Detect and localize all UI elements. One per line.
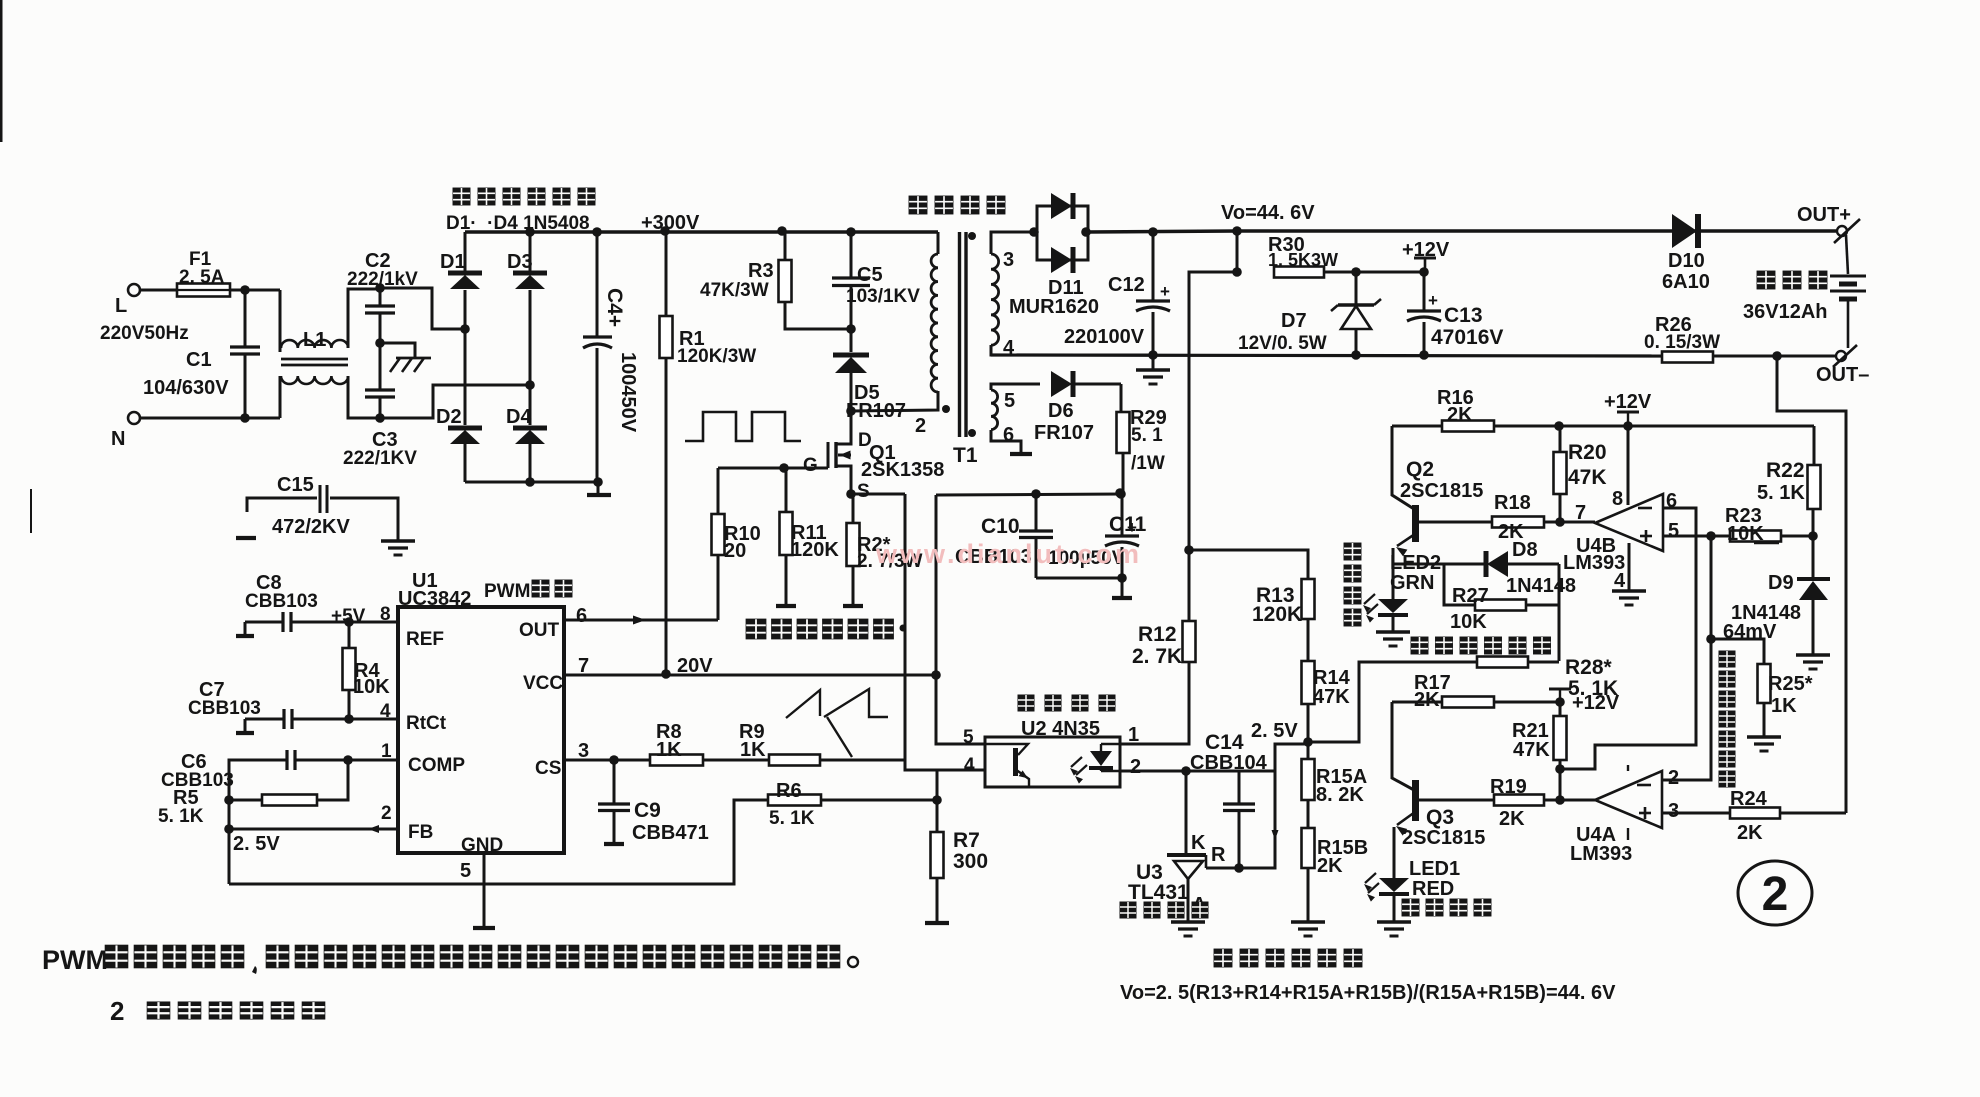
- svg-text:RED: RED: [1412, 878, 1454, 900]
- svg-text:2: 2: [1130, 756, 1141, 778]
- svg-text:2SK1358: 2SK1358: [861, 459, 944, 481]
- svg-text:RtCt: RtCt: [406, 713, 447, 734]
- svg-text:1N4148: 1N4148: [1506, 575, 1576, 597]
- label: charging indicator 充电指示: [1402, 899, 1420, 917]
- phasing dot top: [968, 232, 976, 240]
- label: output voltage adjust 输出电压调节: [1214, 949, 1233, 968]
- svg-text:OUT: OUT: [519, 620, 560, 641]
- svg-text:COMP: COMP: [408, 755, 465, 776]
- node: C12 bottom on 0V rail: [1148, 350, 1158, 360]
- phototransistor inside U2: [1013, 748, 1018, 776]
- wire: left page-edge scan mark: [30, 489, 32, 533]
- phasing dot primary bottom: [942, 405, 950, 413]
- svg-text:1K: 1K: [740, 739, 766, 761]
- svg-text:8. 2K: 8. 2K: [1316, 784, 1364, 806]
- diode D11 MUR1620 dual: [1029, 227, 1039, 237]
- svg-text:2SC1815: 2SC1815: [1402, 827, 1485, 849]
- node: R29 bottom on vcc rail: [1116, 489, 1126, 499]
- svg-text:47K/3W: 47K/3W: [700, 280, 769, 301]
- resistor R16 2K: [1442, 421, 1494, 432]
- resistor R17 2K: [1392, 701, 1442, 704]
- svg-text:2: 2: [1762, 868, 1789, 921]
- svg-text:C12: C12: [1108, 274, 1145, 296]
- ground bar for pin 6: [1010, 452, 1032, 456]
- earth ground below C12: [1152, 355, 1155, 369]
- op-amp U2 4N35 optocoupler box: [985, 737, 1120, 787]
- resistor R1 120K/3W: [660, 226, 670, 236]
- svg-text:6: 6: [576, 605, 587, 627]
- wire R8-R9: [703, 759, 769, 762]
- node: C14 bottom: [1234, 863, 1244, 873]
- svg-text:R22: R22: [1766, 459, 1805, 482]
- phasing dot bottom: [968, 429, 976, 437]
- node: REF +5V: [344, 617, 354, 627]
- earth ground below R15B: [1291, 920, 1325, 923]
- wire D8 to R28 column: [1558, 564, 1561, 661]
- svg-text:2K: 2K: [1414, 689, 1440, 711]
- wire rail to opto pin5: [936, 495, 985, 744]
- svg-text:LM393: LM393: [1570, 843, 1632, 865]
- pin 5 GND stub: [483, 853, 486, 926]
- svg-text:10K: 10K: [1727, 523, 1764, 545]
- resistor R28* 5.1K: [1477, 657, 1528, 668]
- svg-text:222/1KV: 222/1KV: [343, 448, 417, 469]
- pin 1 wire of U2: [1120, 662, 1189, 744]
- wire CS sense vertical: [905, 494, 985, 770]
- svg-text:1K: 1K: [656, 739, 682, 761]
- svg-text:472/2KV: 472/2KV: [272, 516, 350, 538]
- diode D7 zener 12V/0.5W: [1355, 272, 1358, 304]
- svg-text:100450V: 100450V: [617, 352, 639, 433]
- capacitor C9 CBB471: [613, 760, 616, 804]
- terminal L: [128, 284, 140, 296]
- svg-text:5. 1K: 5. 1K: [1757, 482, 1805, 504]
- node: C13 bottom: [1419, 350, 1429, 360]
- svg-text:D9: D9: [1768, 572, 1794, 594]
- resistor R14 47K: [1302, 661, 1315, 704]
- svg-text:PWM: PWM: [42, 945, 108, 975]
- svg-text:R28*: R28*: [1565, 656, 1613, 679]
- svg-text:47K: 47K: [1513, 739, 1550, 761]
- resistor R3 47K/3W: [777, 226, 787, 236]
- diode D10 6A10: [1672, 214, 1697, 248]
- terminal N: [128, 412, 140, 424]
- resistor R6 5.1K: [768, 795, 821, 806]
- wire +12V rail of comparators: [1392, 425, 1814, 428]
- wire R23 to R22/D9: [1781, 535, 1813, 538]
- svg-text:1: 1: [381, 741, 392, 762]
- node: +12V Q3 section: [1555, 697, 1565, 707]
- wire pin6 feedback to output node: [1560, 508, 1696, 769]
- capacitor C14 CBB104: [1238, 771, 1241, 804]
- svg-text:LED2: LED2: [1390, 552, 1441, 574]
- earth ground below D9: [1796, 653, 1830, 656]
- svg-text:D1: D1: [440, 251, 466, 273]
- node: R20 top: [1554, 421, 1564, 431]
- node: Vo rail tap: [1232, 226, 1242, 236]
- node: D7 top: [1351, 267, 1361, 277]
- svg-text:3: 3: [1668, 800, 1679, 822]
- wire R24 to sense column: [1780, 812, 1846, 815]
- node: R20 bottom / pin7: [1555, 517, 1565, 527]
- svg-text:220V50Hz: 220V50Hz: [100, 323, 189, 344]
- svg-text:10K: 10K: [1450, 611, 1487, 633]
- wire OUT pin6 line: [564, 619, 718, 622]
- node: R19 right / U4A out: [1555, 795, 1565, 805]
- wire pin5 to R23: [1663, 535, 1730, 538]
- svg-text:Vo=2. 5(R13+R14+R15A+R15B)/(R1: Vo=2. 5(R13+R14+R15A+R15B)/(R15A+R15B)=4…: [1120, 982, 1616, 1004]
- pin 2 wire of U2: [1120, 770, 1275, 773]
- +300V rail: [465, 230, 938, 234]
- svg-text:D4: D4: [506, 406, 532, 428]
- svg-text:8: 8: [1612, 488, 1623, 510]
- wire sense line down to R24 column: [1777, 356, 1846, 813]
- svg-text:R27: R27: [1452, 585, 1489, 607]
- light arrows inside U2: [1071, 757, 1082, 767]
- node: COMP: [343, 755, 353, 765]
- svg-text:C9: C9: [634, 799, 661, 822]
- capacitor C13 47016V: [1423, 272, 1426, 311]
- svg-text:VCC: VCC: [523, 673, 563, 694]
- node: R22 bottom: [1808, 531, 1818, 541]
- pin 4 gnd lead U4B: [1628, 543, 1631, 590]
- wire 2.5V to R28 riser: [1308, 662, 1477, 742]
- pin 8 REF wire: [349, 621, 398, 624]
- resistor R30 1.5K3W: [1274, 267, 1324, 278]
- svg-text:47K: 47K: [1313, 686, 1350, 708]
- node: R30 left: [1232, 267, 1242, 277]
- ground bar for R2: [843, 604, 863, 608]
- svg-text:10K: 10K: [353, 676, 390, 698]
- svg-text:6: 6: [1003, 424, 1014, 446]
- node: K line junction: [1181, 766, 1191, 776]
- svg-text:D6: D6: [1048, 400, 1074, 422]
- svg-text:4: 4: [1614, 570, 1626, 592]
- wire bridge bottom rail: [465, 481, 598, 484]
- svg-text:T1: T1: [953, 444, 978, 467]
- svg-text:2. 7K: 2. 7K: [1132, 645, 1182, 668]
- pin 1 COMP wire: [348, 759, 398, 762]
- diode D5 FR107: [850, 329, 853, 352]
- node: 2.5V sense: [1303, 737, 1313, 747]
- transformer T1 primary winding: [937, 232, 940, 254]
- vertical label: state switch point adjust 状态转换点调节: [1719, 651, 1736, 668]
- sawtooth icon: [786, 690, 820, 718]
- resistor R15B 2K: [1302, 828, 1315, 868]
- svg-text:+: +: [1428, 291, 1438, 310]
- svg-text:5: 5: [1004, 390, 1015, 412]
- svg-text:2: 2: [1668, 767, 1679, 789]
- resistor R26 0.15/3W: [1662, 352, 1713, 363]
- svg-text:FB: FB: [408, 822, 433, 843]
- resistor R27 10K: [1444, 564, 1475, 605]
- wire R26 to OUT-: [1713, 355, 1836, 358]
- svg-text:120K: 120K: [791, 539, 839, 561]
- transformer T1 core: [958, 232, 961, 437]
- svg-text:C14: C14: [1205, 731, 1244, 754]
- svg-text:CBB103: CBB103: [188, 698, 261, 719]
- svg-text:N: N: [111, 428, 125, 450]
- svg-text:+: +: [1160, 282, 1170, 301]
- wire FB to R6 return: [229, 800, 768, 884]
- wire TL431 R to 2.5V riser: [1206, 744, 1308, 868]
- svg-text:C5: C5: [857, 264, 883, 286]
- capacitor C3 222/1KV: [379, 343, 382, 390]
- svg-text:+12V: +12V: [1604, 391, 1652, 413]
- wire R6 to R7 node: [821, 799, 937, 802]
- resistor R10 20: [717, 468, 720, 514]
- svg-text:C15: C15: [277, 474, 314, 496]
- svg-text:S: S: [857, 481, 870, 502]
- wire divider top to R13: [1189, 550, 1308, 579]
- node: 20V at R1 bottom: [661, 669, 671, 679]
- svg-text:MUR1620: MUR1620: [1009, 296, 1099, 318]
- svg-text:GRN: GRN: [1390, 572, 1434, 594]
- node: CS/C9: [609, 755, 619, 765]
- svg-text:120K/3W: 120K/3W: [677, 346, 756, 367]
- wire node up to pin4 line: [936, 770, 939, 800]
- figure number circle 2: [1738, 861, 1812, 925]
- resistor R13 120K: [1302, 579, 1315, 619]
- node: C2/C3 midpoint (chassis): [375, 338, 385, 348]
- node: bridge N' input: [525, 380, 535, 390]
- svg-text:7: 7: [578, 655, 589, 677]
- svg-text:C10: C10: [981, 515, 1020, 538]
- capacitor C4 100u450V: [592, 227, 602, 237]
- wire secondary output to C12: [1088, 231, 1237, 232]
- diode D8 1N4148 line: [1393, 563, 1484, 566]
- svg-text:LED1: LED1: [1409, 858, 1460, 880]
- svg-text:4: 4: [380, 701, 391, 722]
- svg-text:5. 1: 5. 1: [1131, 425, 1163, 446]
- resistor R8 1K: [650, 755, 703, 766]
- node: gate junction: [779, 463, 789, 473]
- svg-text:5: 5: [1668, 520, 1679, 542]
- vertical label: full-charge indicator 充满指示: [1344, 543, 1362, 561]
- wire gate line: [718, 467, 828, 470]
- wire Q1 source to CS drop: [851, 493, 905, 496]
- wire C2 node to bridge L': [380, 288, 464, 329]
- wire Vo feed jog: [1189, 231, 1237, 550]
- svg-text:CBB104: CBB104: [1190, 752, 1268, 774]
- resistor R19 2K: [1494, 795, 1544, 806]
- svg-text:R12: R12: [1138, 623, 1177, 646]
- ground bar below C10/C11: [1121, 578, 1124, 596]
- svg-text:3: 3: [1003, 249, 1014, 271]
- resistor R29 5.1/1W: [1117, 412, 1130, 453]
- svg-text:REF: REF: [406, 629, 444, 650]
- svg-text:2. 5A: 2. 5A: [179, 267, 225, 288]
- svg-text:+300V: +300V: [641, 212, 700, 234]
- svg-text:PWM: PWM: [484, 581, 530, 602]
- node: R6/R7/opto4: [932, 795, 942, 805]
- pin 4 RtCt wire: [349, 718, 398, 721]
- svg-text:220100V: 220100V: [1064, 326, 1145, 348]
- label: flyback output 反激输出: [909, 196, 928, 215]
- node: pin5/R23 junction: [1706, 531, 1716, 541]
- svg-text:2K: 2K: [1447, 404, 1473, 426]
- wire pin5 node down to U4A pin2: [1662, 536, 1711, 780]
- wire secondary 0V rail: [991, 355, 1662, 356]
- capacitor C11 100u50V: [1115, 488, 1125, 498]
- svg-text:1: 1: [1128, 724, 1139, 746]
- pin 3 CS wire: [564, 759, 650, 762]
- ground bar for C9: [604, 842, 624, 846]
- op-amp U4A LM393: [1560, 799, 1595, 802]
- chassis ground symbol: [380, 343, 415, 358]
- ground bar for U1 GND: [473, 926, 495, 930]
- svg-text:103/1KV: 103/1KV: [846, 286, 920, 307]
- ground for C15 left: [236, 536, 256, 540]
- wire L to fuse: [140, 289, 177, 292]
- svg-text:2K: 2K: [1498, 521, 1524, 543]
- svg-text:2. 5V: 2. 5V: [233, 833, 280, 855]
- ground bar for R7: [925, 921, 949, 925]
- svg-text:5. 1K: 5. 1K: [769, 808, 815, 829]
- svg-text:+: +: [1127, 518, 1137, 537]
- node: snubber bottom: [846, 324, 856, 334]
- diode D9 1N4148 64mV: [1812, 536, 1815, 578]
- wire: top-left page edge mark: [0, 0, 3, 142]
- resistor R4 10K: [348, 622, 351, 648]
- svg-text:5: 5: [460, 860, 471, 882]
- svg-text:R7: R7: [953, 829, 980, 852]
- svg-text:D7: D7: [1281, 310, 1307, 332]
- node: C1 top junction: [240, 285, 250, 295]
- node: bridge L' input: [460, 324, 470, 334]
- svg-text:/1W: /1W: [1131, 453, 1165, 474]
- svg-text:FR107: FR107: [1034, 422, 1094, 444]
- svg-text:R: R: [1211, 844, 1226, 866]
- svg-text:2K: 2K: [1317, 855, 1343, 877]
- capacitor C5 103/1KV: [846, 227, 856, 237]
- svg-text:20: 20: [724, 540, 746, 562]
- svg-text:47K: 47K: [1568, 466, 1607, 489]
- transistor U3 TL431: [1185, 771, 1188, 853]
- svg-text:G: G: [803, 455, 818, 476]
- resistor R7 300: [936, 800, 939, 832]
- wire C3 node to bridge N': [380, 385, 530, 418]
- node: battery minus sense: [1772, 351, 1782, 361]
- svg-text:2: 2: [915, 415, 926, 437]
- svg-text:R19: R19: [1490, 776, 1527, 798]
- svg-text:104/630V: 104/630V: [143, 377, 229, 399]
- node: C1 bottom junction: [240, 413, 250, 423]
- svg-text:L: L: [115, 295, 127, 317]
- earth ground for C15 right: [381, 539, 415, 542]
- resistor R20 47K: [1559, 426, 1562, 452]
- primary ground bar: [597, 482, 600, 494]
- svg-text:C13: C13: [1444, 304, 1483, 327]
- svg-text:UC3842: UC3842: [398, 588, 471, 610]
- svg-text:2SC1815: 2SC1815: [1400, 480, 1483, 502]
- resistor R21 47K: [1559, 702, 1562, 716]
- resistor R5 5.1K: [224, 795, 234, 805]
- resistor R11 120K: [785, 468, 788, 512]
- svg-text:5. 1K: 5. 1K: [1568, 677, 1618, 700]
- svg-text:OUT–: OUT–: [1816, 364, 1869, 386]
- svg-text:R6: R6: [776, 780, 802, 802]
- resistor R9 1K: [769, 755, 820, 766]
- svg-text:300: 300: [953, 850, 988, 873]
- resistor R15A 8.2K: [1307, 742, 1310, 759]
- label: output current adjust 输出电流调节: [746, 619, 767, 640]
- op-amp U1 UC3842 PWM controller box: [398, 607, 564, 853]
- label: trickle charge adjust 涓流大小调节: [1411, 637, 1429, 655]
- fuse F1 2.5A: [177, 284, 230, 297]
- resistor R24 2K: [1730, 808, 1780, 819]
- wire R13-R14: [1307, 619, 1310, 661]
- label: rectifier section 市电整流滤波: [453, 188, 471, 206]
- node: Q1 drain / primary bottom: [846, 406, 856, 416]
- svg-text:R3: R3: [748, 260, 774, 282]
- svg-text:7: 7: [1575, 502, 1586, 524]
- svg-text:CS: CS: [535, 758, 561, 779]
- svg-text:2: 2: [381, 803, 392, 824]
- svg-text:2K: 2K: [1737, 822, 1763, 844]
- node: R25 branch: [1706, 634, 1716, 644]
- node: divider top: [1184, 545, 1194, 555]
- earth ground below R25: [1747, 735, 1781, 738]
- svg-text:Vo=44. 6V: Vo=44. 6V: [1221, 202, 1315, 224]
- svg-text:4: 4: [964, 755, 975, 776]
- resistor R22 5.1K: [1813, 426, 1816, 465]
- node: RtCt: [344, 714, 354, 724]
- svg-text:3: 3: [578, 740, 589, 762]
- earth ground below LED2: [1376, 630, 1410, 633]
- wire rectified aux rail: [936, 494, 1123, 495]
- node: D7 bottom: [1351, 350, 1361, 360]
- square wave icon: [685, 412, 801, 441]
- node: +12V tick: [1623, 421, 1633, 431]
- wire VCC 20V line: [564, 674, 936, 677]
- wire R15A-R15B: [1307, 800, 1310, 828]
- earth ground for U4B pin4: [1612, 589, 1646, 592]
- wire Vo rail to OUT+: [1237, 229, 1836, 232]
- svg-text:5. 1K: 5. 1K: [158, 806, 204, 827]
- wire R9 to sense column: [820, 759, 905, 762]
- resistor R25* 1K: [1711, 639, 1764, 664]
- svg-text:36V12Ah: 36V12Ah: [1743, 301, 1828, 323]
- ground bar for C8: [236, 634, 254, 638]
- svg-text:OUT+: OUT+: [1797, 204, 1851, 226]
- svg-text:12V/0. 5W: 12V/0. 5W: [1238, 333, 1327, 354]
- svg-text:47016V: 47016V: [1431, 326, 1503, 349]
- svg-text:R20: R20: [1568, 441, 1607, 464]
- svg-text:C4+: C4+: [603, 288, 626, 327]
- svg-text:R24: R24: [1730, 788, 1768, 810]
- capacitor C1 104/630V: [244, 290, 247, 347]
- wire fuse to node: [230, 289, 280, 292]
- op-amp U4B LM393: [1595, 494, 1663, 551]
- LED inside U2: [1090, 751, 1112, 766]
- svg-text:C1: C1: [186, 349, 212, 371]
- ground bar for R11: [776, 604, 796, 608]
- svg-text:20V: 20V: [677, 655, 713, 677]
- resistor R12 2.7K: [1183, 621, 1196, 662]
- svg-text:R18: R18: [1494, 492, 1531, 514]
- node: +12V / C13 top: [1419, 267, 1429, 277]
- svg-text:GND: GND: [461, 835, 503, 856]
- capacitor C10 CBB103: [1031, 489, 1041, 499]
- node: 20V to opto column: [931, 670, 941, 680]
- wire R21 node to R19 node: [1559, 769, 1562, 800]
- label: opto isolation 光电隔离: [1018, 695, 1035, 712]
- resistor R2* 2.7/3W: [846, 489, 856, 499]
- svg-text:www.dianlut.com: www.dianlut.com: [875, 539, 1142, 569]
- svg-text:D10: D10: [1668, 250, 1705, 272]
- resistor R23 10K: [1730, 531, 1781, 542]
